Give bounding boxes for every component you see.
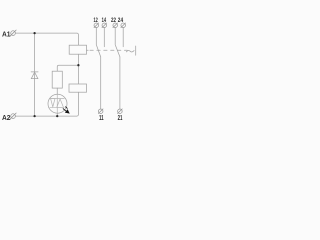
wire contact 14 [103,28,105,47]
terminal A1 [10,30,16,36]
wire diode branch [34,33,36,116]
junction node A2/LED [56,115,58,117]
svg-text:A1: A1 [2,30,11,39]
diode V1 [31,72,38,79]
wire contact 12 [95,28,97,45]
wire contact 24 [122,28,124,47]
wire coil to lower box [77,54,79,84]
wire contact 22 [114,28,116,45]
wire LED to A2 [56,113,58,116]
relay coil K1 box [69,45,86,54]
dashed actuating line [87,49,128,51]
svg-text:22: 22 [111,17,116,24]
junction node coil/resistor branch [77,64,79,66]
wire resistor to LED circle [56,88,58,94]
junction node A2/diode [33,115,35,117]
svg-text:24: 24 [118,17,124,24]
terminal 11 [98,109,103,114]
svg-text:21: 21 [118,115,123,122]
svg-text:11: 11 [99,115,104,122]
linkage tilde [126,50,134,52]
junction node A1/diode [33,32,35,34]
changeover contact arm pole 1 [97,45,101,57]
LED emission arrow [63,107,69,113]
wire A2 horizontal [15,92,78,116]
LED inner diodes [50,94,64,113]
terminal 21 [118,109,123,114]
terminal 14 [102,23,107,28]
wire A1 horizontal to coil [15,33,78,45]
wire common 21 [119,57,121,109]
terminal 22 [113,23,118,28]
svg-text:12: 12 [94,17,99,24]
resistor R1 box [52,71,62,88]
LED indicator circle [48,94,67,113]
svg-text:14: 14 [102,17,107,24]
linkage end bar [135,46,137,55]
changeover contact arm pole 2 [115,45,120,57]
wire branch to resistor [57,65,78,71]
terminal A2 [10,113,16,119]
terminal 24 [121,23,126,28]
terminal 12 [94,23,99,28]
svg-text:A2: A2 [2,113,11,122]
wire common 11 [100,57,102,109]
electronics block box [69,84,87,92]
